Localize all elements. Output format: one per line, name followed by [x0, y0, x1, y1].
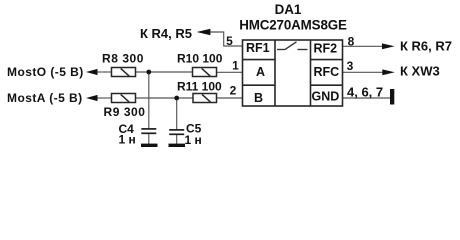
svg-text:HMC270AMS8GE: HMC270AMS8GE: [239, 18, 347, 33]
svg-text:A: A: [256, 65, 265, 79]
op chip DA1 box: [243, 40, 343, 106]
wire pin8: [343, 45, 384, 47]
wire C4 lower: [148, 134, 150, 144]
resistor R10: [193, 68, 217, 77]
svg-text:5: 5: [226, 34, 233, 48]
capacitor C4: [141, 129, 156, 133]
node junction row2: [174, 96, 179, 101]
svg-text:MostO (-5 В): MostO (-5 В): [7, 65, 84, 79]
wire C5 upper: [176, 98, 178, 129]
svg-text:MostA (-5 В): MostA (-5 В): [7, 91, 83, 105]
svg-text:R9 300: R9 300: [104, 105, 146, 119]
svg-text:2: 2: [230, 84, 237, 98]
wire R9 to R11: [136, 97, 194, 99]
wire R11 to pin2: [217, 97, 243, 99]
wire C4 upper: [148, 72, 150, 128]
arrow K XW3: [382, 69, 395, 75]
svg-text:RF2: RF2: [314, 42, 338, 56]
switch symbol inside DA1: [277, 42, 308, 50]
wire K R4,R5 to pin5: [209, 32, 243, 46]
resistor R8: [112, 68, 136, 77]
svg-text:1 н: 1 н: [119, 133, 136, 147]
node junction row1: [146, 70, 151, 75]
svg-text:DA1: DA1: [275, 2, 302, 17]
svg-text:B: B: [254, 91, 263, 105]
arrow MostO: [86, 69, 98, 75]
ground bar C4: [141, 144, 158, 147]
wire R10 to pin1: [217, 71, 243, 73]
arrow K R6,R7: [382, 43, 395, 49]
svg-text:3: 3: [347, 59, 354, 73]
svg-text:GND: GND: [312, 90, 340, 104]
svg-text:1 н: 1 н: [185, 133, 202, 147]
svg-text:К R6, R7: К R6, R7: [400, 39, 452, 54]
wire row1 MostO to R8: [97, 71, 112, 73]
ground terminator right: [390, 89, 394, 105]
resistor R11: [193, 94, 217, 103]
svg-text:К R4, R5: К R4, R5: [140, 26, 192, 41]
wire C5 lower: [176, 135, 178, 144]
wire pin3: [343, 71, 384, 73]
arrow K R4,R5: [197, 29, 211, 36]
svg-text:8: 8: [348, 35, 355, 49]
svg-text:R10 100: R10 100: [177, 52, 223, 66]
wire row2 MostA to R9: [97, 97, 112, 99]
svg-text:RFC: RFC: [314, 65, 340, 79]
svg-text:R8 300: R8 300: [102, 52, 144, 66]
ground bar C5: [169, 144, 186, 147]
resistor R9: [112, 94, 136, 103]
svg-text:1: 1: [232, 59, 239, 73]
arrow MostA: [86, 95, 98, 101]
svg-text:4, 6, 7: 4, 6, 7: [347, 85, 383, 100]
wire GND pins: [343, 97, 391, 99]
wire R8 to R10: [136, 71, 193, 73]
svg-text:RF1: RF1: [246, 41, 270, 55]
capacitor C5: [169, 130, 184, 134]
svg-text:R11 100: R11 100: [177, 80, 222, 94]
svg-text:К XW3: К XW3: [400, 64, 440, 79]
